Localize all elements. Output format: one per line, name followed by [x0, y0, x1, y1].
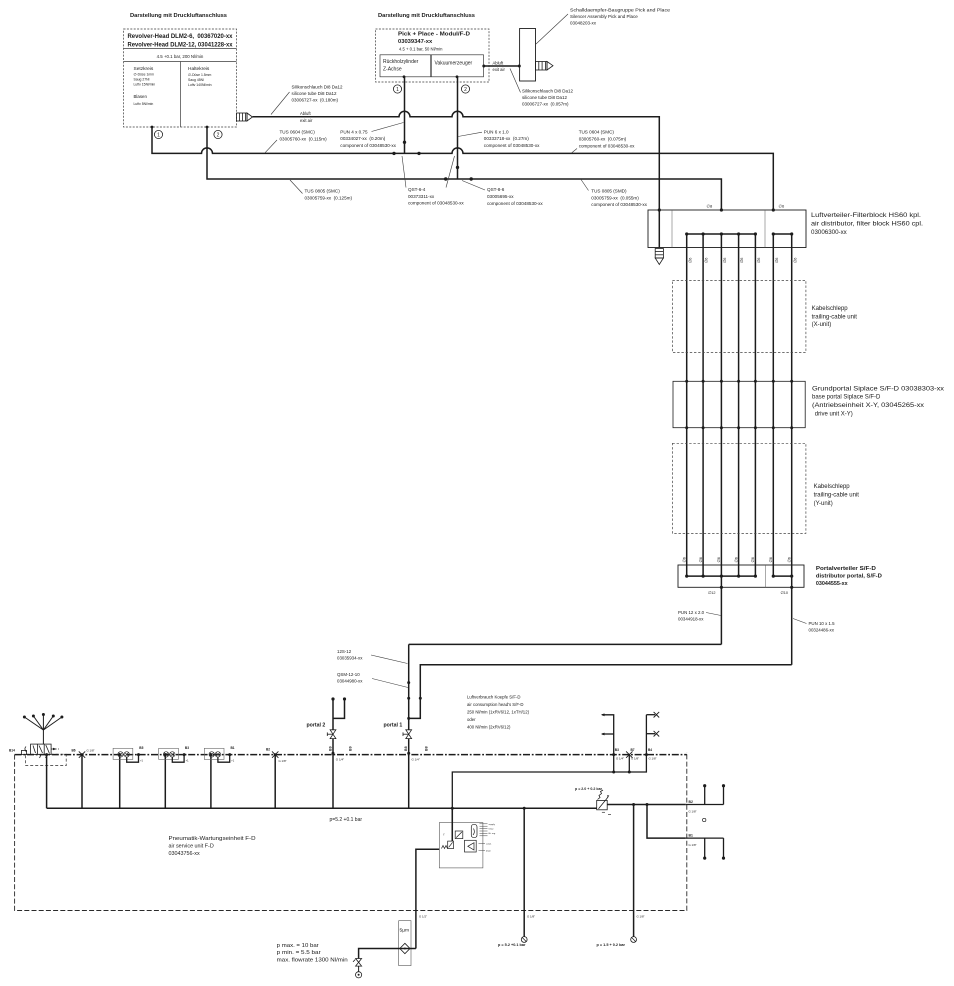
svg-text:PUN 6 x 1.0: PUN 6 x 1.0 — [484, 129, 509, 134]
svg-text:G 1/8”: G 1/8” — [279, 759, 287, 763]
pressure regulator B2 circuit — [597, 790, 609, 810]
node 1 pick+place — [403, 75, 406, 78]
svg-text:400 Nl/min (2xRV6/12): 400 Nl/min (2xRV6/12) — [467, 725, 511, 730]
svg-text:03005759-xx (0.125m): 03005759-xx (0.125m) — [305, 195, 353, 200]
label TUS 0604 right — [579, 129, 635, 148]
svg-text:∅6: ∅6 — [751, 557, 755, 562]
trailing cable X-unit box — [672, 280, 806, 352]
svg-text:00333718-xx (0.27m): 00333718-xx (0.27m) — [484, 136, 529, 141]
junction pick2/halte — [456, 166, 459, 169]
svg-text:03043756-xx: 03043756-xx — [169, 851, 200, 857]
shut-off valve portal 1 — [403, 730, 412, 739]
svg-text:Kabelschlepp: Kabelschlepp — [812, 306, 849, 312]
label 12S-12 — [337, 649, 363, 661]
svg-text:B5: B5 — [139, 746, 143, 750]
svg-text:QSM-12-10: QSM-12-10 — [337, 672, 360, 677]
label silicone tube at silencer — [522, 89, 574, 107]
wire pick+place node2 drop — [457, 77, 459, 179]
svg-text:00324486-xx: 00324486-xx — [809, 627, 835, 632]
svg-text:1: 1 — [157, 133, 160, 139]
svg-text:03005760-xx (0.075m): 03005760-xx (0.075m) — [579, 136, 627, 141]
label PUN 6x1.0 — [484, 129, 540, 148]
svg-text:base portal Siplace S/F-D: base portal Siplace S/F-D — [812, 395, 881, 401]
svg-text:5 bar: 5 bar — [489, 828, 494, 831]
svg-text:∅6: ∅6 — [683, 557, 687, 562]
portal 2 stubs — [332, 699, 334, 730]
air distributor filter block HS60 — [648, 210, 806, 248]
filter block bus right — [773, 233, 791, 235]
svg-text:03005759-xx (0.055m): 03005759-xx (0.055m) — [591, 195, 639, 200]
svg-text:00373311-xx: 00373311-xx — [408, 194, 435, 199]
svg-text:filt. reg.: filt. reg. — [489, 832, 497, 835]
svg-text:Luftv 140Nl/min: Luftv 140Nl/min — [188, 83, 212, 87]
svg-text:component of 03048530-xx: component of 03048530-xx — [340, 143, 396, 148]
label TUS 0805 right — [591, 189, 647, 208]
svg-text:Schalldaempfer-Baugruppe Pick: Schalldaempfer-Baugruppe Pick and Place — [570, 8, 671, 13]
svg-text:portal 1: portal 1 — [384, 723, 403, 729]
svg-text:Luftverteiler-Filterblock HS60: Luftverteiler-Filterblock HS60 kpl. — [811, 212, 921, 219]
svg-text:component of 03048530-xx: component of 03048530-xx — [591, 202, 647, 207]
7 distribution lines — [686, 234, 688, 576]
base portal box — [673, 381, 805, 427]
svg-text:12S-12: 12S-12 — [337, 649, 352, 654]
svg-text:∅6: ∅6 — [779, 204, 785, 209]
svg-text:Vakuumerzeuger: Vakuumerzeuger — [435, 61, 473, 67]
svg-text:G 1/8”: G 1/8” — [87, 749, 95, 753]
portal bus right — [773, 575, 791, 577]
revolver-head box — [124, 29, 237, 127]
wire pick+place node1 drop — [404, 77, 406, 154]
wire setzkreis line — [152, 127, 773, 210]
svg-text:drive unit X-Y): drive unit X-Y) — [815, 411, 853, 417]
svg-text:B2: B2 — [266, 748, 270, 752]
svg-text:B3: B3 — [615, 748, 619, 752]
label air consumption heads — [467, 695, 530, 730]
svg-text:∅-Düse 1mm: ∅-Düse 1mm — [134, 73, 155, 77]
flow control group B5 — [113, 746, 144, 763]
svg-text:Portalverteiler S/F-D: Portalverteiler S/F-D — [816, 566, 876, 572]
regulator output line to B2 — [607, 804, 686, 806]
svg-text:G 1/8”: G 1/8” — [649, 757, 657, 761]
flow control group B1 — [204, 746, 235, 763]
svg-text:Z-Achse: Z-Achse — [383, 67, 402, 73]
muffler below filter block — [655, 249, 663, 265]
B3 B7 B4 connectors — [452, 715, 655, 841]
svg-text:5µm: 5µm — [400, 928, 410, 934]
svg-text:03005760-xx (0.115m): 03005760-xx (0.115m) — [280, 136, 328, 141]
revolver-head box text — [128, 34, 234, 106]
svg-text:B4: B4 — [648, 748, 652, 752]
PUN10 run — [409, 665, 792, 719]
label PUN 4x0.75 — [340, 129, 396, 148]
portal outputs — [720, 576, 722, 644]
svg-text:drain: drain — [486, 849, 492, 852]
svg-text:4.5 +0.1 bar, 200 Nl/min: 4.5 +0.1 bar, 200 Nl/min — [157, 54, 204, 59]
svg-text:Haltekreis: Haltekreis — [188, 66, 210, 72]
svg-text:portal 2: portal 2 — [307, 723, 326, 729]
svg-text:Darstellung mit Druckluftansch: Darstellung mit Druckluftanschluss — [130, 13, 227, 19]
svg-text:Revolver-Head DLM2-12, 0304122: Revolver-Head DLM2-12, 03041228-xx — [128, 43, 234, 49]
svg-text:B9: B9 — [349, 746, 353, 751]
filter block bus middle — [687, 233, 756, 235]
svg-text:B8: B8 — [425, 746, 429, 751]
5um filter — [399, 921, 411, 966]
svg-text:∅6: ∅6 — [723, 258, 727, 263]
PUN12 run to portal 1 — [409, 643, 722, 645]
B1 line right of boundary — [686, 837, 724, 839]
svg-text:Silikonschlauch Di8 Da12: Silikonschlauch Di8 Da12 — [292, 84, 344, 89]
svg-text:B7: B7 — [631, 748, 635, 752]
B1 port stubs — [704, 838, 706, 858]
B1 feed — [647, 805, 686, 839]
supply drop from line to drain1 — [523, 808, 525, 937]
svg-text:TUS 0805 (SMC): TUS 0805 (SMC) — [305, 189, 341, 194]
label distributor portal — [816, 566, 882, 587]
node 1 revolver — [151, 126, 154, 129]
svg-text:Luftv 5Nl/min: Luftv 5Nl/min — [134, 102, 154, 106]
portal bus left — [687, 575, 756, 577]
B2 port stubs — [686, 804, 724, 806]
svg-text:Blasen: Blasen — [134, 94, 148, 99]
svg-text:∅6: ∅6 — [717, 557, 721, 562]
dashed box below valve — [26, 754, 67, 765]
svg-text:4.5 + 0.1 bar, 50 Nl/min: 4.5 + 0.1 bar, 50 Nl/min — [399, 47, 443, 52]
svg-text:03048203-xx: 03048203-xx — [570, 21, 597, 26]
node 2 revolver — [206, 126, 209, 129]
svg-text:p=5.2 +0.1 bar: p=5.2 +0.1 bar — [330, 817, 363, 823]
svg-text:TUS 0805 (SMD): TUS 0805 (SMD) — [591, 189, 627, 194]
supply line — [47, 807, 597, 809]
svg-text:Darstellung mit Druckluftansch: Darstellung mit Druckluftanschluss — [378, 13, 475, 19]
svg-text:00334027-xx (0.20m): 00334027-xx (0.20m) — [340, 136, 385, 141]
junction pick1/setz — [403, 141, 406, 144]
svg-text:∅12: ∅12 — [708, 591, 716, 595]
svg-text:(Antriebseinheit X-Y, 03045265: (Antriebseinheit X-Y, 03045265-xx — [812, 403, 924, 409]
label silencer assembly — [570, 8, 671, 26]
svg-text:G 1/4”: G 1/4” — [336, 758, 344, 762]
svg-text:∅6: ∅6 — [757, 258, 761, 263]
svg-text:Abluft: Abluft — [493, 60, 505, 65]
fan of tubes — [24, 715, 62, 745]
svg-text:G 1/8”: G 1/8” — [637, 915, 645, 919]
svg-text:00344918-xx: 00344918-xx — [678, 616, 704, 621]
pick+place box — [376, 29, 490, 82]
label filter block — [811, 212, 923, 236]
svg-text:exit air: exit air — [493, 67, 506, 72]
svg-text:Grundportal Siplace S/F-D 0303: Grundportal Siplace S/F-D 03038303-xx — [812, 386, 944, 392]
svg-text:PUN 4 x 0.75: PUN 4 x 0.75 — [340, 129, 368, 134]
svg-text:Pneumatik-Wartungseinheit F-D: Pneumatik-Wartungseinheit F-D — [169, 836, 256, 842]
svg-text:03039347-xx: 03039347-xx — [398, 39, 433, 45]
svg-text:p max. = 10 bar: p max. = 10 bar — [277, 943, 319, 949]
svg-text:∅-Düse 1.5mm: ∅-Düse 1.5mm — [188, 73, 211, 77]
svg-text:B1: B1 — [231, 746, 235, 750]
drain2 drop — [633, 805, 635, 937]
svg-text:component of 03048530-xx: component of 03048530-xx — [579, 143, 635, 148]
exhaust inside left cell — [658, 210, 660, 248]
svg-text:air service unit F-D: air service unit F-D — [169, 844, 214, 850]
svg-text:B6: B6 — [72, 749, 76, 753]
svg-text:03006727-xx (0.180m): 03006727-xx (0.180m) — [292, 97, 339, 102]
label PUN 10 — [809, 621, 836, 633]
svg-text:∅6: ∅6 — [699, 557, 703, 562]
distributor portal box — [678, 565, 804, 587]
svg-text:max. flowrate 1300 Nl/min: max. flowrate 1300 Nl/min — [277, 958, 348, 964]
coupling X B7 on bus — [626, 751, 632, 757]
svg-text:Abluft: Abluft — [300, 111, 312, 116]
label TUS 0604 left — [280, 130, 328, 142]
svg-text:G 1/2”: G 1/2” — [419, 915, 427, 919]
svg-text:PUN 12 x 2.0: PUN 12 x 2.0 — [678, 610, 705, 615]
svg-text:Saug 45Nl: Saug 45Nl — [188, 78, 204, 82]
svg-text:silicone tube Di8 Da12: silicone tube Di8 Da12 — [522, 95, 568, 100]
label silicone tube revolver — [292, 84, 344, 102]
svg-text:∅6: ∅6 — [769, 557, 773, 562]
main valve 3/2 — [22, 744, 52, 758]
shut-off valve portal 2 — [327, 730, 336, 739]
coupling X B6 — [79, 751, 85, 757]
svg-text:Pick + Place - Modul/F-D: Pick + Place - Modul/F-D — [398, 32, 470, 38]
svg-text:Luftverbrauch Koepfe S/F-D: Luftverbrauch Koepfe S/F-D — [467, 695, 521, 700]
inlet riser from 5um filter — [416, 849, 439, 948]
svg-text:Rückholzylinder: Rückholzylinder — [383, 59, 419, 65]
svg-text:p = 2.0 + 0.2 bar: p = 2.0 + 0.2 bar — [575, 787, 603, 791]
svg-text:B2: B2 — [689, 800, 693, 804]
svg-text:component of 03048530-xx: component of 03048530-xx — [487, 201, 543, 206]
svg-text:component of 03048530-xx: component of 03048530-xx — [408, 201, 464, 206]
svg-text:∅6: ∅6 — [793, 258, 797, 263]
svg-text:∅6: ∅6 — [775, 258, 779, 263]
wire haltekreis line — [207, 127, 721, 210]
svg-text:p = 5.2 +0.1 bar: p = 5.2 +0.1 bar — [498, 943, 526, 947]
label QSM-12-10 — [337, 672, 363, 684]
svg-text:G 1/8”: G 1/8” — [689, 810, 697, 814]
svg-text:QST-6-4: QST-6-4 — [408, 187, 426, 192]
svg-text:250 Nl/min (1xRV6/12, 1xTH/12): 250 Nl/min (1xRV6/12, 1xTH/12) — [467, 710, 530, 715]
svg-text:B9: B9 — [328, 746, 332, 751]
silencer assembly pick and place — [520, 29, 536, 82]
label PUN 12 — [678, 610, 705, 622]
svg-text:QST-8-6: QST-8-6 — [487, 187, 505, 192]
svg-text:component of 03048530-xx: component of 03048530-xx — [484, 143, 540, 148]
portal 1 main drop — [408, 644, 410, 729]
svg-text:03005695-xx: 03005695-xx — [487, 194, 514, 199]
svg-text:silicone tube Di8 Da12: silicone tube Di8 Da12 — [292, 91, 338, 96]
svg-text:distributor portal, S/F-D: distributor portal, S/F-D — [816, 574, 882, 580]
svg-text:∅6: ∅6 — [688, 258, 692, 263]
svg-text:03035934-xx: 03035934-xx — [337, 655, 363, 660]
svg-text:B14: B14 — [9, 749, 15, 753]
flow control group B3 — [159, 746, 190, 763]
svg-text:G 1/8”: G 1/8” — [689, 843, 697, 847]
svg-text:supply: supply — [489, 824, 496, 826]
svg-text:2: 2 — [217, 133, 220, 139]
inlet shut-off valve — [353, 959, 362, 967]
svg-text:03006300-xx: 03006300-xx — [811, 229, 848, 236]
service unit combo (filter-regulator-lubricator) — [439, 823, 483, 868]
label air service unit — [169, 836, 256, 857]
trailing cable Y-unit box — [672, 443, 806, 533]
svg-text:air consumption head’s S/F-D: air consumption head’s S/F-D — [467, 702, 524, 707]
svg-text:∅6: ∅6 — [705, 258, 709, 263]
svg-text:G 1/4”: G 1/4” — [412, 758, 420, 762]
svg-text:Silencer Assembly Pick and Pla: Silencer Assembly Pick and Place — [570, 14, 638, 19]
svg-text:1: 1 — [396, 87, 399, 93]
svg-text:trailing-cable unit: trailing-cable unit — [814, 492, 860, 498]
valve pilot dashed stub — [51, 748, 59, 750]
svg-text:oder: oder — [467, 717, 476, 722]
svg-text:∅8: ∅8 — [707, 204, 713, 209]
svg-text:03044555-xx: 03044555-xx — [816, 581, 848, 587]
inlet line to source — [359, 949, 416, 959]
compressed air source — [356, 972, 362, 978]
svg-text:G 1/8”: G 1/8” — [631, 757, 639, 761]
svg-text:G 1/8”: G 1/8” — [527, 915, 535, 919]
svg-text:2: 2 — [464, 87, 467, 93]
label QST-6-4 — [408, 187, 464, 206]
svg-text:G 1/4”: G 1/4” — [616, 757, 624, 761]
svg-text:∅6: ∅6 — [788, 557, 792, 562]
label QST-8-6 — [487, 187, 543, 206]
svg-text:∅6: ∅6 — [740, 258, 744, 263]
wire exhaust line — [253, 111, 660, 210]
label supply pressure — [277, 943, 348, 964]
svg-text:TUS 0604 (SMC): TUS 0604 (SMC) — [280, 130, 316, 135]
svg-text:TUS 0604 (SMC): TUS 0604 (SMC) — [579, 129, 615, 134]
svg-text:(Y-unit): (Y-unit) — [814, 501, 833, 507]
svg-text:Saug 27Nl: Saug 27Nl — [134, 78, 150, 82]
svg-text:Silikonschlauch Di8 Da12: Silikonschlauch Di8 Da12 — [522, 89, 574, 94]
svg-text:p = 1.5 + 0.2 bar: p = 1.5 + 0.2 bar — [597, 943, 626, 947]
svg-text:Revolver-Head DLM2-6, 0036702: Revolver-Head DLM2-6, 00367020-xx — [128, 34, 234, 40]
svg-text:B3: B3 — [185, 746, 189, 750]
coupling X B2a — [272, 751, 278, 757]
service unit dashed boundary — [15, 752, 687, 910]
svg-text:03006727-xx (0.057m): 03006727-xx (0.057m) — [522, 102, 569, 107]
drain1 symbol — [521, 937, 527, 943]
svg-text:Kabelschlepp: Kabelschlepp — [814, 484, 851, 490]
svg-text:Setzkreis: Setzkreis — [134, 66, 154, 72]
main bus dash-dot — [15, 754, 687, 756]
junctions on supply line — [451, 807, 454, 810]
svg-text:B1: B1 — [689, 834, 693, 838]
svg-text:p min. = 5.5 bar: p min. = 5.5 bar — [277, 950, 321, 956]
muffler on revolver head — [237, 113, 253, 121]
svg-text:∅6: ∅6 — [734, 557, 738, 562]
svg-text:air distributor, filter block: air distributor, filter block HS60 cpl. — [811, 221, 923, 228]
label TUS 0805 left — [305, 189, 353, 201]
svg-text:Luftv 15Nl/min: Luftv 15Nl/min — [134, 83, 156, 87]
svg-text:trailing-cable unit: trailing-cable unit — [812, 314, 858, 320]
svg-text:(X-unit): (X-unit) — [812, 322, 832, 328]
wire exit air pick+place — [484, 65, 520, 67]
svg-text:exit air: exit air — [300, 118, 313, 123]
valve drop — [45, 753, 48, 756]
svg-text:03044980-xx: 03044980-xx — [337, 679, 363, 684]
node 2 pick+place — [456, 75, 459, 78]
svg-text:B8: B8 — [404, 746, 408, 751]
svg-text:∅10: ∅10 — [781, 591, 789, 595]
svg-text:cond.: cond. — [486, 844, 492, 846]
svg-text:PUN 10 x 1.5: PUN 10 x 1.5 — [809, 621, 836, 626]
